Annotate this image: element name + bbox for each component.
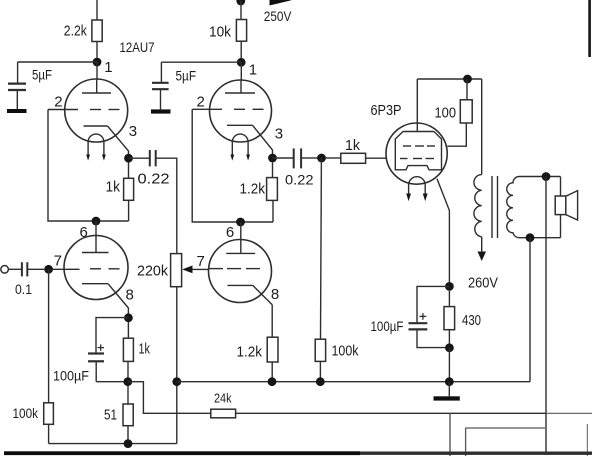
- svg-text:7: 7: [197, 253, 205, 270]
- triode V1a cathode: [84, 126, 129, 155]
- triode V1a anode: [82, 79, 111, 93]
- triode V1b grid pin7: [49, 268, 120, 271]
- resistor 100 screen: [447, 79, 472, 146]
- triode V2b cathode: [228, 285, 273, 304]
- resistor 24k feedback: [211, 409, 236, 418]
- resistor 100k grid leak 6P3P: [315, 339, 325, 377]
- svg-text:100: 100: [435, 106, 457, 122]
- transformer secondary winding: [507, 177, 561, 238]
- capacitor 0.22 coupling stage1: [150, 150, 156, 166]
- svg-text:0.22: 0.22: [285, 172, 314, 188]
- svg-text:3: 3: [129, 123, 137, 140]
- wire node to V1b anode: [95, 221, 97, 236]
- resistor 51: [123, 386, 133, 444]
- wire primary bottom 260V feed: [478, 237, 487, 261]
- svg-text:1.2k: 1.2k: [237, 344, 263, 361]
- wire node to tube V1a pin1: [96, 62, 98, 79]
- wire feedback from secondary top: [545, 177, 547, 456]
- resistor 1k cathode stage1: [123, 322, 133, 378]
- resistor 10k plate load V2a: [236, 20, 246, 59]
- wire ground bus bottom: [49, 443, 177, 445]
- svg-text:6: 6: [226, 224, 234, 241]
- triode V1a envelope: [65, 79, 128, 142]
- node 51 bottom: [124, 439, 133, 448]
- wire cap to 220k pot top: [157, 158, 177, 253]
- resistor 1k SRPP stage1: [124, 163, 134, 222]
- svg-text:1.2k: 1.2k: [240, 181, 266, 198]
- svg-text:6P3P: 6P3P: [371, 103, 402, 119]
- node cathode V1b: [124, 313, 133, 322]
- border right edge: [588, 0, 591, 57]
- resistor 1k grid stopper 6P3P: [326, 153, 387, 163]
- svg-text:1k: 1k: [345, 137, 360, 154]
- wire node to 5uF cap stage2: [161, 61, 241, 63]
- wire bottom far right stub: [586, 424, 588, 456]
- ground stage1 cap: [7, 109, 27, 113]
- node input grid: [44, 265, 53, 274]
- svg-text:0.22: 0.22: [138, 171, 170, 188]
- svg-text:100µF: 100µF: [53, 368, 89, 384]
- ground stage2 cap: [151, 109, 171, 113]
- pentode 6P3P envelope: [386, 123, 447, 184]
- svg-text:260V: 260V: [468, 276, 498, 292]
- node 100k bottom ground bus: [316, 377, 325, 386]
- input terminal: [1, 266, 21, 274]
- transformer core: [492, 176, 498, 238]
- node screen feed: [463, 75, 472, 84]
- node secondary top feedback: [542, 172, 551, 181]
- node 6P3P cathode top: [445, 282, 454, 291]
- triode V1b envelope: [64, 236, 128, 300]
- node main ground: [445, 377, 454, 386]
- node cathode output V1a: [124, 154, 133, 163]
- resistor 100k input: [44, 403, 54, 444]
- node cathode output V2a: [268, 154, 277, 163]
- node 6P3P grid: [317, 154, 326, 163]
- triode V2a cathode: [227, 125, 273, 155]
- transformer primary winding: [474, 175, 482, 237]
- heater V2a: [230, 134, 250, 161]
- triode V1b cathode: [82, 284, 128, 314]
- wire grid node down to 100k: [320, 158, 323, 339]
- wire 6P3P cathode lead: [437, 179, 449, 282]
- capacitor 5uF decoupling stage1: [8, 62, 26, 109]
- wire node to V2b anode: [240, 222, 242, 240]
- svg-text:430: 430: [462, 313, 481, 329]
- wire ground bus: [177, 381, 530, 383]
- wire cap to 6P3P grid node: [302, 157, 318, 159]
- svg-text:2.2k: 2.2k: [64, 23, 87, 40]
- svg-text:2: 2: [197, 94, 205, 111]
- triode V2a grid pin2: [192, 108, 263, 110]
- resistor 1.2k SRPP stage2: [267, 162, 278, 222]
- border bottom scan edge: [4, 451, 592, 455]
- node plate supply V2a: [237, 58, 246, 67]
- potentiometer 220k: [171, 254, 182, 444]
- wire node to 100k grid resistor: [48, 269, 50, 403]
- node cathode network stage1: [123, 377, 132, 386]
- svg-text:100µF: 100µF: [371, 318, 404, 334]
- node ground bus stage1: [172, 377, 181, 386]
- wire node to coupling cap: [129, 157, 150, 159]
- wire cap bottom to node: [96, 381, 123, 383]
- capacitor 0.1 input: [22, 262, 44, 276]
- triode V2b envelope: [209, 240, 272, 303]
- wire bottom right extension: [546, 412, 592, 414]
- triode V2b anode: [226, 240, 255, 254]
- wire node to 5uF cap: [18, 61, 97, 63]
- heater V1a: [86, 134, 106, 161]
- capacitor 100uF cathode 6P3P: [409, 313, 446, 348]
- svg-text:7: 7: [54, 253, 62, 270]
- svg-text:5µF: 5µF: [32, 66, 52, 82]
- svg-text:51: 51: [104, 408, 117, 424]
- wire node to feedback run: [128, 382, 211, 414]
- triode V1b anode: [82, 236, 109, 253]
- wire B+ top rail node: [236, 0, 245, 19]
- wire node to tube V2a pin1: [240, 62, 242, 80]
- svg-text:1: 1: [249, 62, 257, 79]
- wire primary top: [481, 79, 483, 175]
- node anode V2b: [236, 218, 245, 227]
- svg-text:8: 8: [126, 287, 134, 304]
- wire secondary bottom to ground bus: [529, 238, 531, 382]
- arrow 250V supply: [270, 0, 292, 6]
- wire grid loop stage1: [48, 110, 129, 222]
- capacitor 0.22 coupling stage2: [294, 148, 301, 168]
- svg-text:1k: 1k: [106, 179, 121, 196]
- capacitor 100uF cathode stage1: [88, 344, 104, 381]
- triode V2a anode: [225, 80, 255, 93]
- triode V2b grid pin7: [209, 268, 260, 270]
- ground main: [434, 382, 460, 401]
- node secondary bottom return: [526, 233, 535, 242]
- svg-text:1k: 1k: [139, 342, 151, 358]
- node plate supply V1a: [93, 58, 102, 67]
- svg-text:220k: 220k: [137, 263, 168, 280]
- triode V2a envelope: [210, 80, 272, 142]
- svg-text:100k: 100k: [332, 344, 360, 360]
- wire cathode node to bypass cap: [417, 286, 449, 322]
- wire cathode node to bypass cap: [96, 318, 128, 353]
- pentode 6P3P anode and beam plates: [395, 79, 441, 170]
- svg-text:1: 1: [104, 59, 112, 76]
- node 1.2k bottom ground bus: [268, 377, 277, 386]
- wire chassis line below ground: [449, 413, 451, 456]
- wiper arrow 220k to V2b grid: [182, 266, 209, 274]
- heater 6P3P: [406, 177, 427, 202]
- svg-text:8: 8: [271, 286, 279, 303]
- svg-text:24k: 24k: [214, 391, 232, 406]
- wire feedback run to secondary: [236, 412, 546, 414]
- wire 430 bottom to ground bus: [448, 348, 450, 382]
- resistor 430 cathode 6P3P: [444, 291, 455, 344]
- speaker: [555, 191, 577, 220]
- svg-text:3: 3: [275, 126, 283, 143]
- resistor 2.2k plate load V1a: [92, 20, 102, 58]
- wire grid loop stage2: [192, 109, 273, 222]
- svg-text:2: 2: [54, 94, 62, 111]
- wire secondary to speaker: [560, 177, 562, 238]
- node anode V1b: [92, 217, 101, 226]
- capacitor 5uF decoupling stage2: [152, 62, 169, 109]
- svg-text:10k: 10k: [209, 24, 231, 41]
- svg-text:5µF: 5µF: [176, 68, 197, 84]
- svg-text:0.1: 0.1: [15, 281, 32, 297]
- triode V1a grid pin2: [48, 109, 120, 111]
- wire node to coupling cap stage2: [273, 157, 294, 159]
- svg-text:100k: 100k: [13, 405, 39, 421]
- pentode 6P3P control grid: [400, 158, 434, 160]
- svg-text:250V: 250V: [264, 8, 292, 24]
- wire bottom box edge: [466, 428, 545, 456]
- wire 6P3P plate to transformer: [417, 78, 481, 80]
- node 430 bottom: [445, 343, 454, 352]
- wire B+ to 2.2k top: [96, 0, 98, 20]
- resistor 1.2k cathode stage2: [267, 305, 278, 378]
- svg-text:12AU7: 12AU7: [120, 39, 155, 55]
- pentode 6P3P screen grid: [403, 145, 435, 147]
